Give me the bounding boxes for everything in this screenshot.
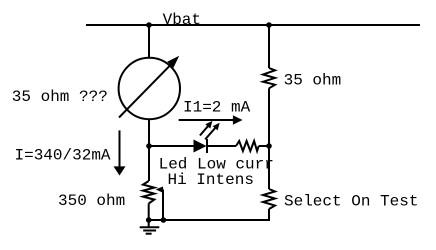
junction dot right on Vbat rail	[266, 22, 272, 28]
resistor series with LED (horizontal zigzag)	[236, 141, 259, 151]
wire Vbat rail to 35 ohm resistor	[268, 25, 270, 68]
svg-text:I1=2 mA: I1=2 mA	[183, 99, 251, 117]
variable element diagonal arrow	[119, 64, 172, 118]
junction dot left on Vbat rail	[146, 22, 152, 28]
wire circle bottom to LED branch junction	[148, 119, 150, 146]
junction dot wiper bottom	[161, 217, 167, 223]
potentiometer wiper arrow	[159, 190, 163, 220]
current arrow I1	[179, 119, 234, 121]
wire LED cathode to resistor	[207, 145, 236, 147]
wire resistor to right column	[259, 145, 269, 147]
current source / variable element circle	[119, 58, 180, 119]
wire top rail Vbat	[86, 24, 420, 26]
wire junction to LED anode	[149, 145, 194, 147]
LED emission arrow 1	[200, 124, 210, 136]
LED D1 cathode bar	[206, 139, 208, 153]
svg-text:I=340/32mA: I=340/32mA	[15, 147, 111, 165]
junction dot right column LED row	[266, 143, 272, 149]
wire from Vbat rail to current source circle	[148, 25, 150, 58]
LED emission arrow 2	[205, 126, 217, 140]
wire 35 ohm resistor to Select resistor	[268, 88, 270, 189]
wire Select resistor to bottom rail	[149, 209, 269, 220]
svg-text:Select On Test: Select On Test	[284, 192, 418, 210]
resistor 35 ohm (vertical zigzag)	[263, 68, 275, 88]
wire pot bottom to ground	[148, 204, 150, 221]
resistor Select On Test (vertical zigzag)	[263, 189, 275, 209]
svg-text:Vbat: Vbat	[163, 11, 201, 29]
potentiometer 350 ohm zigzag	[143, 181, 154, 204]
current arrow I=340/32mA	[119, 130, 121, 167]
junction dot bottom left	[146, 217, 152, 223]
svg-text:35 ohm: 35 ohm	[284, 72, 342, 90]
wire LED branch junction to pot	[148, 146, 150, 181]
junction dot at LED branch	[146, 143, 152, 149]
LED D1 triangle	[194, 140, 207, 153]
ground	[148, 220, 150, 227]
svg-text:35 ohm ???: 35 ohm ???	[12, 88, 108, 106]
svg-text:Hi Intens: Hi Intens	[168, 171, 254, 189]
svg-text:350 ohm: 350 ohm	[58, 192, 125, 210]
